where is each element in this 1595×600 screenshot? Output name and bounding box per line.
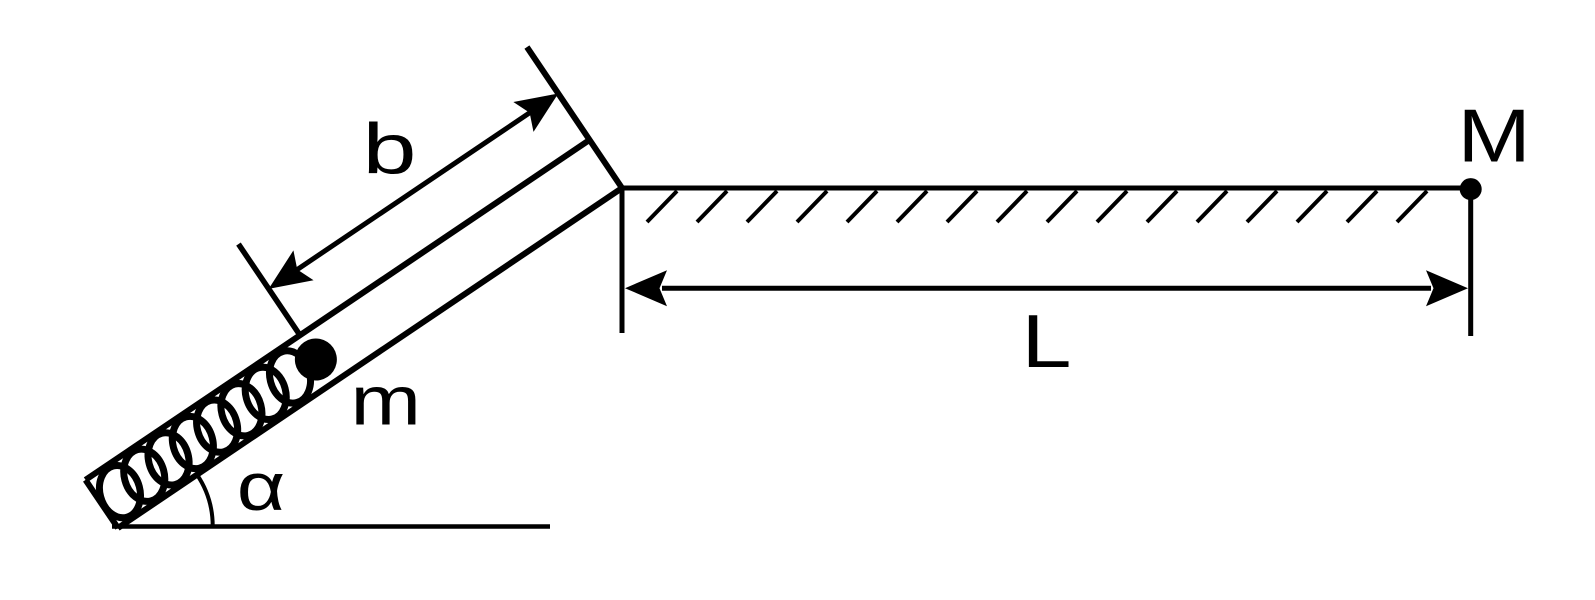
svg-text:m: m [351, 362, 422, 440]
dimension b shaft [274, 97, 553, 285]
incline tube upper wall [86, 140, 590, 480]
dimension L arrowhead right [1426, 270, 1468, 306]
dimension b arrowhead bottom [259, 250, 314, 303]
svg-text:L: L [1022, 299, 1072, 383]
table surface line [622, 186, 1470, 191]
dimension b tick line [238, 244, 298, 334]
ground baseline [112, 524, 550, 529]
extension line left [620, 188, 625, 333]
dimension L shaft [662, 286, 1431, 291]
svg-text:M: M [1458, 94, 1531, 178]
mass point M dot [1460, 178, 1482, 200]
incline tube bottom end cap [86, 480, 118, 528]
spring [79, 335, 330, 533]
incline tube lower wall [118, 188, 622, 528]
svg-text:b: b [363, 111, 417, 190]
extension line right [1468, 189, 1473, 336]
dimension L arrowhead left [625, 270, 667, 306]
ball m [287, 330, 345, 388]
incline top end cap line [527, 47, 622, 188]
angle arc alpha [197, 475, 213, 526]
hatching [647, 191, 1427, 222]
dimension b arrowhead top [513, 79, 568, 132]
svg-text:α: α [237, 449, 285, 525]
